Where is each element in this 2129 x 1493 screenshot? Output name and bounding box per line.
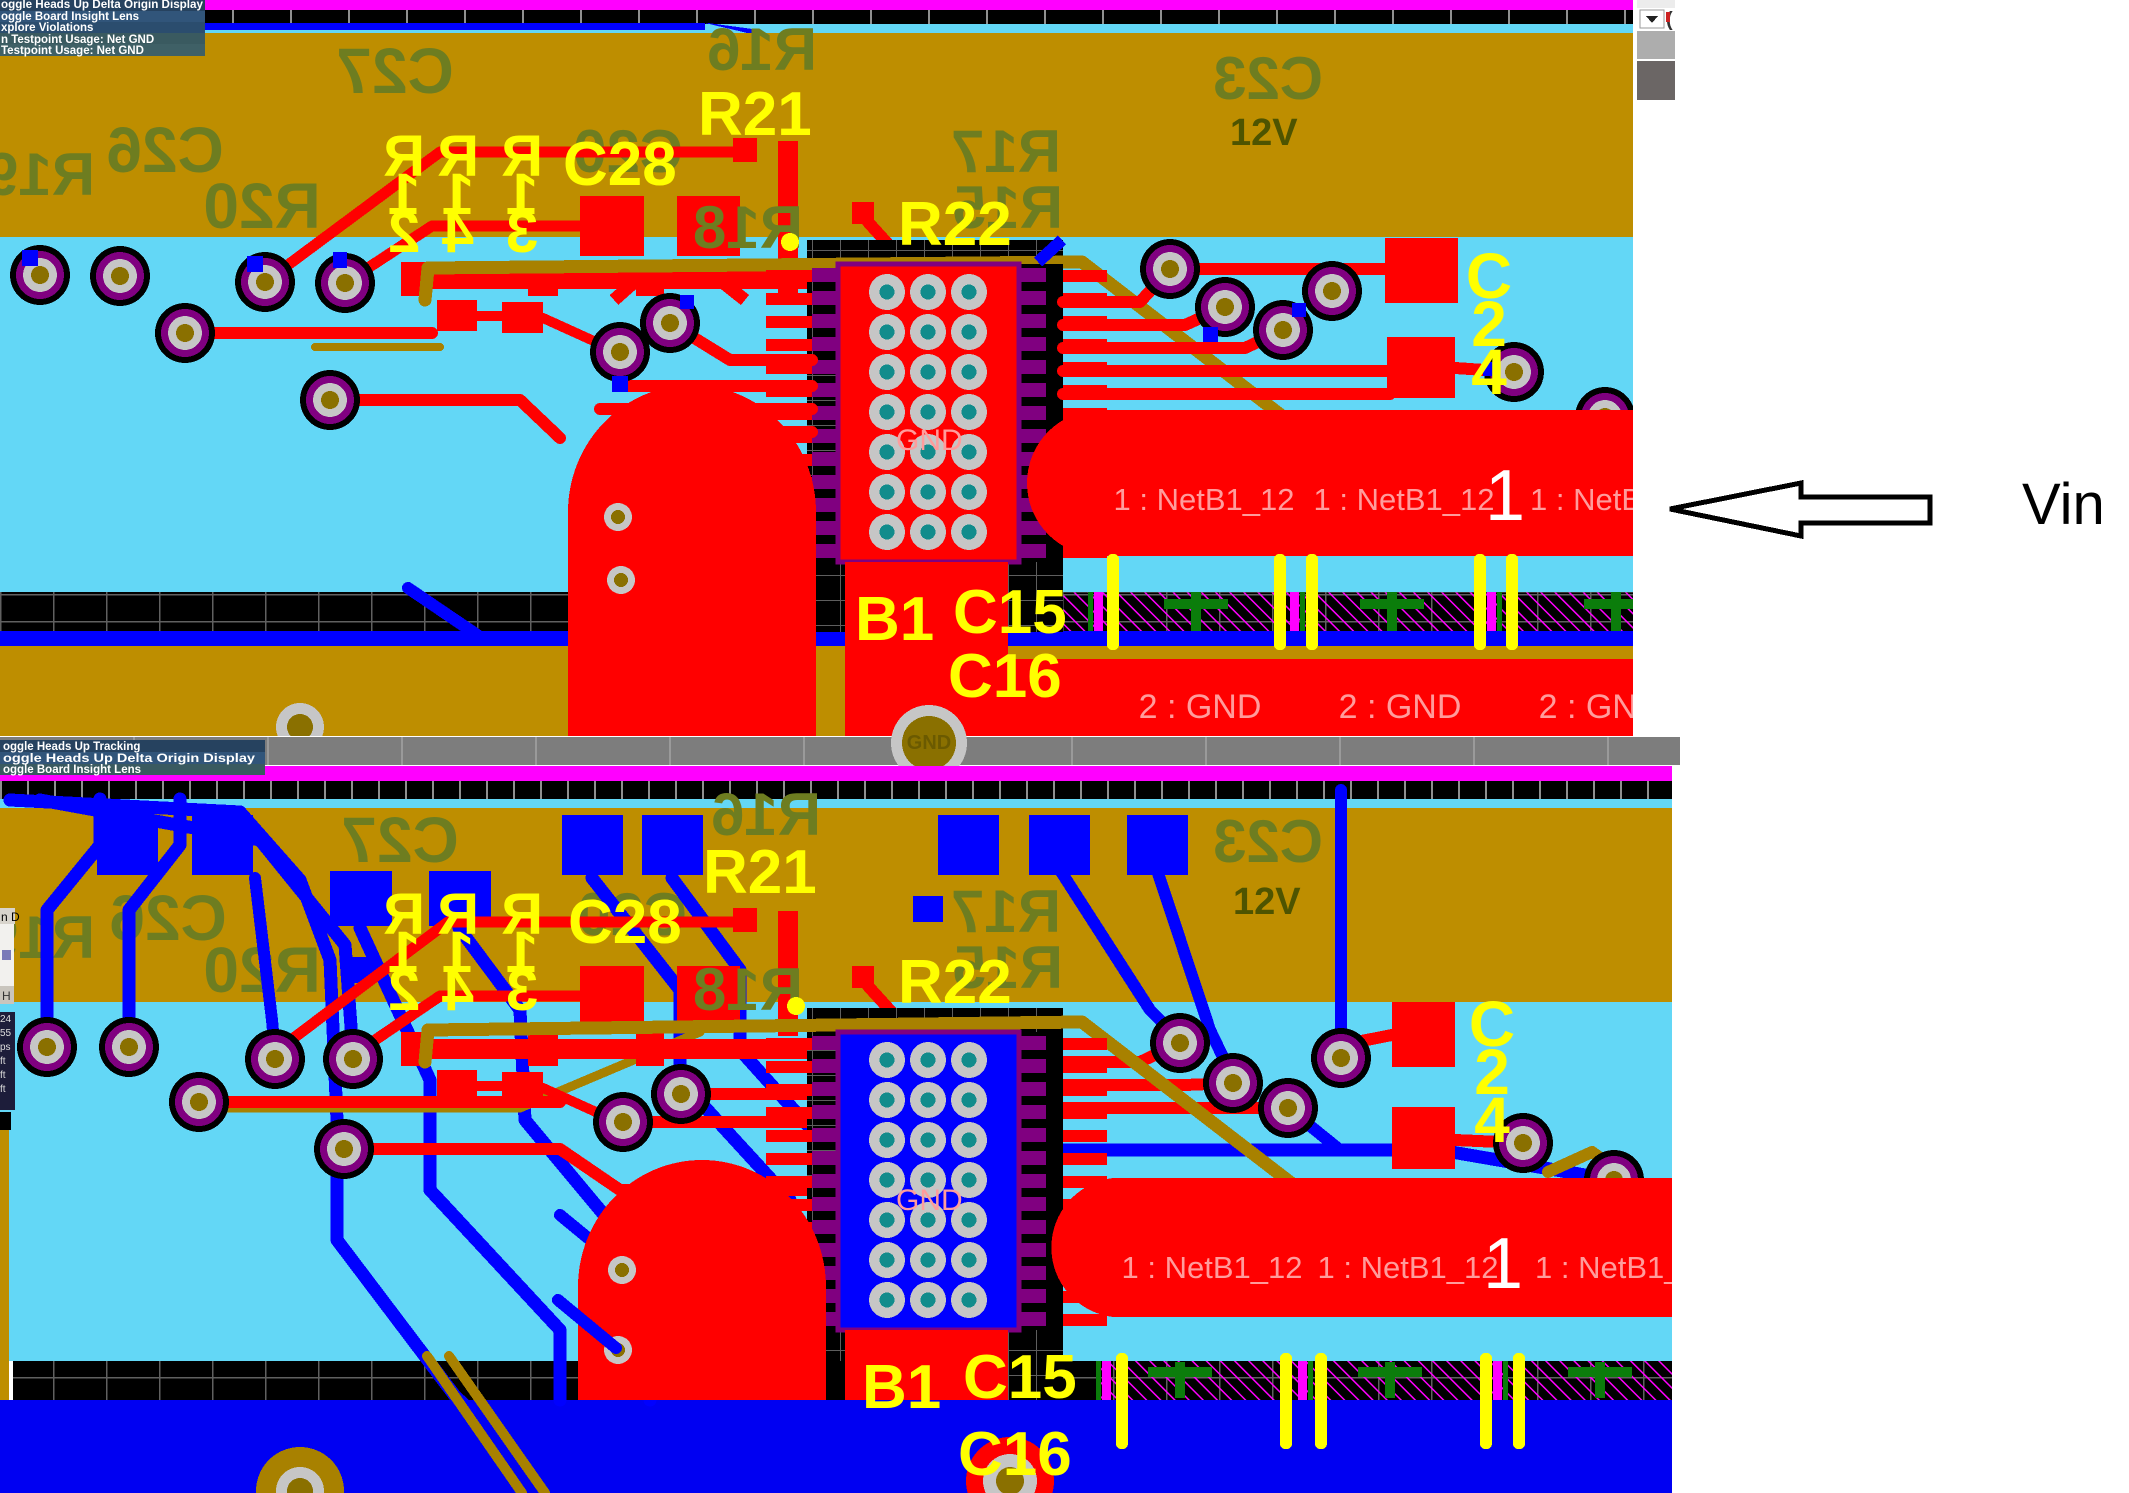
silkscreen R18 [693, 956, 803, 1023]
via (gold ring, bottom) [256, 1447, 344, 1493]
wire [1063, 388, 1390, 400]
wire (inner layer) [408, 588, 492, 645]
capacitor body (dome, bottom view) [578, 1160, 826, 1400]
svg-text:oggle Heads Up Delta Origin Di: oggle Heads Up Delta Origin Display [1, 0, 204, 11]
wire [1063, 269, 1170, 302]
silkscreen C23 [1213, 808, 1323, 875]
via in dome [604, 1336, 632, 1364]
testpoint bar [1116, 1353, 1128, 1449]
pad C28.1 [580, 966, 644, 1026]
pad C24.1 [1385, 238, 1458, 303]
svg-text:C16: C16 [958, 1420, 1072, 1489]
silkscreen C20 [573, 118, 683, 185]
tooltip menu (bottom left) [0, 740, 265, 776]
via [1311, 1028, 1371, 1088]
silkscreen C27 [341, 804, 458, 876]
svg-text:R18: R18 [693, 956, 803, 1023]
wire 12V (gold) [425, 1022, 1308, 1196]
wire (bottom layer) [1157, 870, 1233, 1078]
via blue layer ticks [22, 250, 1497, 392]
bottom copper plane [0, 1400, 1672, 1493]
wire (bottom layer) [592, 878, 790, 1200]
pads R12/R13 [437, 1070, 543, 1103]
left edge strip [0, 1127, 9, 1400]
capacitor body (dome) [568, 385, 816, 736]
svg-text:24: 24 [0, 1014, 12, 1025]
silkscreen R17 [951, 118, 1061, 185]
GND plane cross marker [1164, 592, 1228, 634]
svg-text:4: 4 [442, 958, 474, 1023]
junction dot [781, 233, 799, 251]
wire [600, 403, 812, 415]
wire [1063, 365, 1390, 377]
silkscreen R19 [0, 904, 95, 971]
via [1302, 261, 1362, 321]
GND plane cross marker [1358, 1362, 1422, 1398]
wire (bottom layer) [1062, 1150, 1614, 1180]
svg-text:1 : NetB1_12: 1 : NetB1_12 [1318, 1250, 1499, 1285]
wire R21 net [275, 922, 737, 1052]
designator R14 (vertical) [437, 124, 479, 189]
wire R13 net [345, 226, 585, 283]
strip [826, 1361, 852, 1400]
keepout band [13, 1361, 1672, 1400]
svg-text:C27: C27 [341, 804, 458, 876]
via [314, 1119, 374, 1179]
connector bar B1 pin1 (Vin net) [1027, 410, 1633, 556]
IC B1 pins [812, 1036, 1046, 1326]
svg-text:R19: R19 [0, 141, 95, 208]
wire R21 vertical [778, 141, 798, 296]
IC B1 pin fingers [766, 1038, 1107, 1326]
wire R12 net [185, 327, 432, 339]
testpoint bar [1474, 554, 1486, 650]
wire R21 net [265, 152, 737, 282]
GND copper bar [1008, 659, 1633, 736]
svg-text:C16: C16 [948, 642, 1062, 711]
wire [1341, 1035, 1392, 1045]
via [99, 1017, 159, 1077]
wire (gold) [315, 343, 440, 351]
svg-text:ft: ft [0, 1056, 6, 1067]
svg-text:3: 3 [506, 958, 538, 1023]
via [10, 245, 70, 305]
GND plane cross marker [1360, 592, 1424, 634]
wire [1170, 263, 1385, 275]
svg-text:oggle Heads Up Tracking: oggle Heads Up Tracking [3, 741, 140, 753]
GND plane cross marker [1148, 1362, 1212, 1398]
pad R22.1 [852, 966, 874, 988]
via [323, 1029, 383, 1089]
via [235, 252, 295, 312]
toolbar fragment [1637, 0, 1675, 8]
wire R13 net [353, 996, 585, 1055]
pad R21.1 [733, 138, 757, 162]
bottom copper view background [0, 1002, 1672, 1361]
wire [1063, 1102, 1288, 1114]
strip [816, 646, 845, 736]
wire [660, 426, 812, 438]
silkscreen R20 [203, 170, 320, 242]
svg-text:oggle Board Insight Lens: oggle Board Insight Lens [3, 764, 141, 776]
wire (bottom layer) [40, 800, 352, 1040]
svg-text:1: 1 [1483, 1224, 1523, 1304]
designator R12 (vertical) [383, 882, 425, 947]
wire R21 vertical [778, 911, 798, 1036]
wire R22 net [868, 986, 937, 1062]
top-layer polygon (12V plane) [0, 808, 1672, 1002]
testpoint bar [1280, 1353, 1292, 1449]
IC B1 lower body [845, 1330, 1008, 1400]
silkscreen R16 [707, 16, 817, 83]
IC B1 pad array [869, 1042, 987, 1318]
top-layer polygon (12V plane) [0, 33, 1633, 237]
IC B1 [807, 240, 1063, 632]
wire [344, 1149, 812, 1190]
svg-text:n D: n D [1, 910, 20, 924]
silkscreen C26 [106, 114, 223, 186]
svg-text:4: 4 [1474, 1084, 1510, 1156]
wire (bottom layer) [560, 1215, 622, 1266]
wire (bottom layer) [558, 1300, 616, 1348]
wire [449, 1356, 545, 1493]
via [155, 303, 215, 363]
silkscreen C20 [577, 881, 687, 948]
via in dome [607, 566, 635, 594]
silkscreen R18 [693, 194, 803, 261]
svg-text:GND: GND [896, 424, 963, 457]
wire (bottom layer) [129, 799, 180, 1040]
svg-text:GND: GND [896, 1184, 963, 1217]
pad GND ring (bottom) [966, 1437, 1054, 1493]
designator R13 (vertical) [501, 882, 543, 947]
wire R12 net [197, 1096, 560, 1108]
svg-text:R18: R18 [693, 194, 803, 261]
via [1253, 300, 1313, 360]
IC B1 body [838, 1032, 1019, 1330]
pad R22.1 [852, 202, 874, 224]
via [1150, 1013, 1210, 1073]
via in dome [608, 1256, 636, 1284]
via [651, 1064, 711, 1124]
tooltip menu (top left) [0, 0, 205, 57]
via [169, 1072, 229, 1132]
via [1493, 1113, 1553, 1173]
svg-text:2: 2 [388, 200, 420, 265]
via [1575, 387, 1635, 447]
wire (bottom layer) [1060, 870, 1180, 1040]
testpoint bar [1513, 1353, 1525, 1449]
wire (bottom layer) [1335, 790, 1347, 1050]
svg-text:R22: R22 [898, 190, 1012, 259]
wire (gold) [1548, 1152, 1614, 1172]
layer colour bar (magenta) [0, 0, 1633, 10]
svg-text:R22: R22 [898, 948, 1012, 1017]
svg-text:C27: C27 [336, 35, 453, 107]
silkscreen R20 [203, 934, 320, 1006]
wire 12V (gold) [425, 262, 1308, 436]
svg-text:3: 3 [506, 200, 538, 265]
wire (bottom layer) [1288, 1108, 1340, 1150]
svg-text:C23: C23 [1213, 45, 1323, 112]
svg-text:xplore Violations: xplore Violations [1, 22, 93, 34]
lower gold strip [1008, 646, 1633, 659]
testpoint bar [1480, 1353, 1492, 1449]
wire (bottom layer) [10, 800, 470, 1410]
silkscreen C27 [336, 35, 453, 107]
silkscreen C23 [1213, 45, 1323, 112]
left edge panel fragments [0, 908, 20, 1130]
testpoint bar [1107, 554, 1119, 650]
wire (gold) [210, 1032, 700, 1108]
window title bar [0, 737, 1680, 765]
annotation arrow (Vin) [1670, 483, 1930, 536]
svg-text:12V: 12V [1230, 112, 1298, 154]
svg-text:Testpoint Usage: Net GND: Testpoint Usage: Net GND [1, 45, 144, 57]
via [1203, 1053, 1263, 1113]
wire [1063, 307, 1225, 325]
svg-text:Vin: Vin [2022, 472, 2105, 537]
scrollbar dark [1637, 61, 1675, 100]
wire [670, 323, 812, 360]
pad C24.2 [1392, 1107, 1455, 1169]
pad C28.2 [677, 196, 740, 256]
wire [1455, 1140, 1523, 1143]
bottom rail (blue) [0, 631, 1633, 646]
IC B1 lower body [845, 562, 1008, 736]
svg-text:4: 4 [442, 200, 474, 265]
wire: red bus with pads [401, 1032, 848, 1066]
via (bottom edge) [276, 703, 324, 751]
hatched GND region [1100, 1361, 1672, 1400]
svg-text:1 : NetB1_12: 1 : NetB1_12 [1314, 482, 1495, 517]
silkscreen C26 [109, 882, 226, 954]
via [300, 370, 360, 430]
svg-text:C28: C28 [563, 130, 677, 199]
wire [1455, 368, 1514, 372]
pad R21.1 [733, 908, 757, 932]
via [593, 1092, 653, 1152]
wire (bottom layer) [459, 928, 650, 1400]
svg-text:C28: C28 [568, 888, 682, 957]
pad C24.2 [1387, 337, 1455, 398]
ruler bar [0, 781, 1672, 799]
GND plane cross marker [1584, 592, 1648, 634]
svg-text:B1: B1 [855, 585, 934, 654]
wire (bottom layer) [255, 878, 275, 1052]
IC B1 (bottom view) [807, 1008, 1063, 1400]
keepout band [0, 592, 1633, 631]
red outline (component ring) [614, 277, 745, 300]
ruler bar [0, 10, 1633, 24]
wire: red bus with pads [401, 262, 848, 296]
IC B1 body [838, 264, 1019, 562]
silkscreen R15 [953, 934, 1063, 1001]
testpoint slivers [1096, 1361, 1508, 1400]
bottom-layer SMD pads [97, 815, 1188, 983]
wire [477, 1081, 504, 1091]
wire [427, 1356, 522, 1493]
testpoint bar [1274, 554, 1286, 650]
designator R13 (vertical) [501, 124, 543, 189]
designator R14 (vertical) [437, 882, 479, 947]
via [17, 1017, 77, 1077]
silkscreen R15 [953, 174, 1063, 241]
wire (bottom layer) [360, 928, 560, 1400]
via in dome [604, 503, 632, 531]
via [1258, 1078, 1318, 1138]
svg-text:1 : NetB1_12: 1 : NetB1_12 [1114, 482, 1295, 517]
via [245, 1029, 305, 1089]
svg-text:2: 2 [388, 958, 420, 1023]
svg-text:1: 1 [1485, 456, 1525, 536]
via [640, 293, 700, 353]
svg-text:2 : GND: 2 : GND [1339, 688, 1462, 726]
via [1584, 1150, 1644, 1210]
svg-text:R20: R20 [203, 170, 320, 242]
pad C24.1 [1392, 1002, 1455, 1067]
silkscreen R17 [951, 878, 1061, 945]
testpoint bar [1506, 554, 1518, 650]
svg-text:1 : NetB1_12: 1 : NetB1_12 [1122, 1250, 1303, 1285]
svg-text:55: 55 [0, 1028, 12, 1039]
IC B1 pins [812, 268, 1046, 558]
wire [543, 1088, 618, 1122]
via [1195, 277, 1255, 337]
wire [1063, 1083, 1233, 1085]
svg-text:B1: B1 [862, 1353, 941, 1422]
svg-text:2 : GND: 2 : GND [1139, 688, 1262, 726]
testpoint bar [1306, 554, 1318, 650]
pads R12/R13 [437, 300, 543, 333]
wire (gold right) [1520, 442, 1633, 468]
svg-text:H: H [2, 989, 11, 1003]
svg-text:R21: R21 [703, 838, 817, 907]
wire [1063, 1043, 1180, 1062]
hatched GND region [1063, 592, 1633, 631]
testpoint bar [1315, 1353, 1327, 1449]
pad C28.2 [677, 966, 740, 1026]
wire [477, 311, 504, 321]
pad C28.1 [580, 196, 644, 256]
wire [543, 318, 618, 352]
testpoint slivers [1088, 592, 1502, 631]
wire: blue top rail [0, 23, 760, 36]
svg-text:12V: 12V [1233, 881, 1301, 923]
scrollbar light [1637, 31, 1675, 59]
title bar separators [133, 737, 1609, 765]
GND plane cross marker [1568, 1362, 1632, 1398]
svg-text:R21: R21 [698, 80, 812, 149]
layer colour bar (magenta) [0, 766, 1672, 781]
via [1140, 239, 1200, 299]
wire [623, 1116, 812, 1128]
lower-left polygon [0, 646, 569, 736]
via [1484, 342, 1544, 402]
svg-text:4: 4 [1471, 336, 1507, 408]
wire R22 net [868, 222, 937, 298]
designator R12 (vertical) [383, 124, 425, 189]
pad GND (through hole) [891, 705, 967, 781]
IC B1 pad array [869, 274, 987, 550]
wire [618, 380, 812, 392]
connector bar B1 pin1 (Vin net, bottom view) [1051, 1178, 1672, 1317]
wire [1063, 330, 1283, 348]
svg-text:ft: ft [0, 1070, 6, 1081]
svg-text:R16: R16 [707, 16, 817, 83]
junction dot [787, 997, 805, 1015]
wire: blue corner [1038, 240, 1062, 262]
wire [681, 1088, 812, 1100]
via [315, 253, 375, 313]
wire (bottom layer) [672, 878, 830, 1150]
silkscreen R16 [711, 781, 821, 848]
IC B1 pin fingers [766, 270, 1107, 558]
svg-text:GND: GND [907, 732, 951, 754]
svg-text:C15: C15 [963, 1343, 1077, 1412]
top copper view background [0, 237, 1633, 594]
svg-text:ps: ps [0, 1042, 11, 1053]
svg-text:C23: C23 [1213, 808, 1323, 875]
via [590, 322, 650, 382]
svg-text:ft: ft [0, 1084, 6, 1095]
wire (bottom layer) [47, 799, 100, 1040]
via [90, 246, 150, 306]
wire R14 net [330, 400, 560, 438]
svg-text:C15: C15 [953, 578, 1067, 647]
silkscreen R19 [0, 141, 95, 208]
